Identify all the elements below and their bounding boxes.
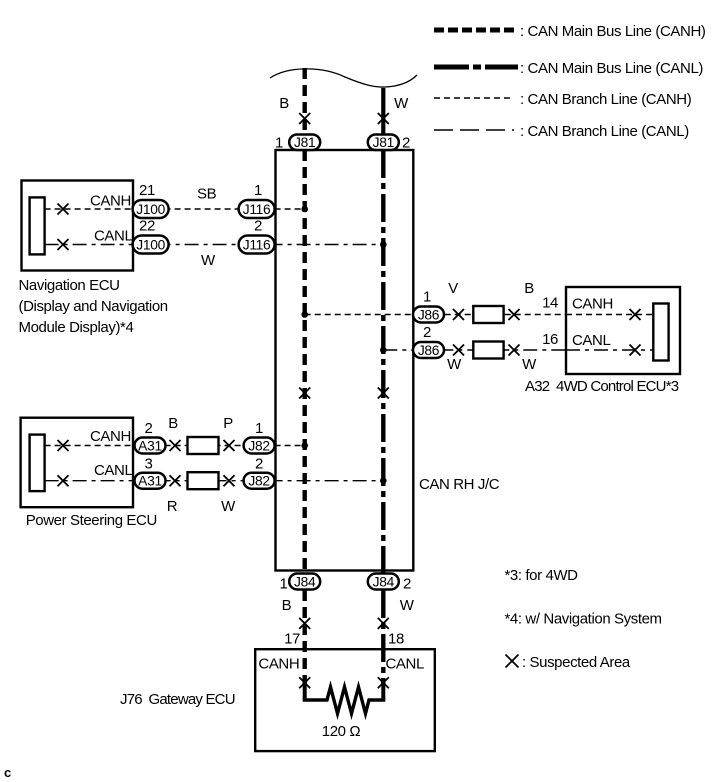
svg-text:CANH: CANH bbox=[90, 193, 131, 210]
node: 4WD CANH taps main bus bbox=[301, 311, 308, 318]
node: Navigation CANL joins main bus bbox=[380, 241, 387, 248]
suspected area X after J86 pin 2 bbox=[453, 345, 464, 356]
wire: CANL main bus below J84 (W) bbox=[383, 590, 414, 684]
svg-text:J116: J116 bbox=[243, 238, 271, 253]
svg-text:*3: for 4WD: *3: for 4WD bbox=[505, 567, 579, 584]
legend: CAN Branch Line (CANH) sample bbox=[434, 91, 692, 108]
svg-text:Power Steering ECU: Power Steering ECU bbox=[26, 512, 157, 529]
svg-text:R: R bbox=[167, 498, 178, 515]
svg-text:18: 18 bbox=[388, 631, 404, 648]
A32 internal connector pin rail bbox=[653, 304, 668, 361]
svg-text:21: 21 bbox=[139, 182, 155, 199]
svg-text:: CAN Branch Line (CANL): : CAN Branch Line (CANL) bbox=[520, 123, 689, 140]
connector J86 pin 2 bbox=[413, 324, 444, 358]
svg-text:CANL: CANL bbox=[94, 228, 132, 245]
svg-text:B: B bbox=[168, 415, 178, 432]
suspected area X on CANH below J84 bbox=[299, 618, 310, 629]
svg-text:1: 1 bbox=[275, 135, 283, 152]
svg-text:A31: A31 bbox=[138, 474, 162, 489]
svg-text:J100: J100 bbox=[136, 238, 165, 253]
wire: 4WD CANL branch (W / W) bbox=[383, 350, 653, 373]
suspected area X on PS CANH at ECU bbox=[58, 440, 69, 451]
connector J82 pin 2 bbox=[244, 456, 275, 489]
connector J81 pin 2 bbox=[368, 135, 410, 152]
wire: Navigation CANL branch (W) bbox=[45, 228, 384, 270]
wire: Power Steering CANH branch (B / P) bbox=[45, 415, 305, 446]
inline connector on 4WD CANH bbox=[473, 306, 503, 323]
svg-text:SB: SB bbox=[197, 186, 217, 203]
suspected area X before J82 pin 1 bbox=[224, 440, 235, 451]
svg-text:J86: J86 bbox=[418, 343, 440, 358]
svg-text:J84: J84 bbox=[373, 575, 395, 590]
A32 4WD Control ECU box bbox=[525, 287, 680, 395]
inline connector on 4WD CANL bbox=[473, 342, 503, 359]
svg-text:2: 2 bbox=[255, 456, 263, 473]
suspected area X on PS CANL at ECU bbox=[58, 475, 69, 486]
suspected area X in A32 CANH bbox=[630, 309, 641, 320]
wire: A32 internal CANH bbox=[566, 296, 653, 315]
suspected area X on CANH above J81 bbox=[299, 113, 310, 124]
suspected area X on CANH inside J/C bbox=[299, 388, 310, 399]
suspected area X on CANL inside gateway bbox=[378, 677, 389, 688]
suspected area X in A32 CANL bbox=[630, 345, 641, 356]
svg-text:W: W bbox=[201, 252, 216, 269]
svg-text:J82: J82 bbox=[248, 474, 269, 489]
suspected area X on Navigation CANH bbox=[58, 204, 69, 215]
svg-text:J100: J100 bbox=[136, 202, 165, 217]
svg-text:14: 14 bbox=[542, 295, 558, 312]
svg-text:1: 1 bbox=[423, 289, 431, 306]
wire: CANL lead into terminating resistor bbox=[381, 684, 385, 700]
note suspected area legend X bbox=[506, 654, 631, 671]
svg-text:W: W bbox=[447, 356, 462, 373]
svg-text:J84: J84 bbox=[294, 575, 316, 590]
wire: A32 internal CANL bbox=[566, 332, 653, 350]
svg-text:1: 1 bbox=[255, 420, 263, 437]
connector J81 pin 1 bbox=[275, 135, 320, 152]
svg-text:CANH: CANH bbox=[258, 656, 299, 673]
connector A31 pin 3 bbox=[135, 456, 166, 489]
connector J100 pin 22 bbox=[133, 218, 169, 254]
svg-text:W: W bbox=[394, 95, 409, 112]
node: PS CANH joins main bus bbox=[301, 442, 308, 449]
svg-text:A31: A31 bbox=[138, 439, 162, 454]
svg-text:2: 2 bbox=[145, 420, 153, 437]
svg-text:120 Ω: 120 Ω bbox=[322, 723, 361, 740]
svg-text:c: c bbox=[4, 765, 11, 780]
suspected area X on CANL above J81 bbox=[378, 113, 389, 124]
svg-text:A32 4WD Control ECU*3: A32 4WD Control ECU*3 bbox=[525, 378, 679, 395]
svg-text:J116: J116 bbox=[243, 202, 271, 217]
svg-text:1: 1 bbox=[254, 182, 262, 199]
connector A31 pin 2 bbox=[135, 420, 166, 454]
legend: CAN Main Bus Line (CANL) sample bbox=[434, 60, 703, 77]
svg-text:V: V bbox=[448, 280, 458, 297]
svg-text:B: B bbox=[524, 280, 534, 297]
svg-text:B: B bbox=[279, 95, 289, 112]
svg-text:1: 1 bbox=[280, 576, 288, 593]
connector J84 pin 2 bbox=[368, 574, 411, 593]
svg-text:P: P bbox=[223, 415, 233, 432]
suspected area X before A32 CANH bbox=[509, 309, 520, 320]
inline connector on PS CANH bbox=[188, 437, 219, 454]
suspected area X after J86 pin 1 bbox=[453, 309, 464, 320]
Power Steering ECU box bbox=[21, 418, 157, 529]
Navigation ECU box bbox=[19, 181, 168, 337]
svg-text:(Display and Navigation: (Display and Navigation bbox=[19, 298, 168, 315]
wire: CANL main bus above J81 (W) bbox=[383, 88, 409, 134]
wire: Navigation CANH branch (SB) bbox=[45, 186, 305, 210]
svg-text:Navigation ECU: Navigation ECU bbox=[19, 277, 120, 294]
wire: Power Steering CANL branch (R / W) bbox=[45, 462, 384, 515]
svg-text:: Suspected Area: : Suspected Area bbox=[522, 654, 631, 671]
wire: harness break wavy line bbox=[270, 69, 417, 87]
svg-text:: CAN Branch Line (CANH): : CAN Branch Line (CANH) bbox=[520, 91, 692, 108]
wire: CANH main bus below J84 (B) bbox=[282, 590, 305, 684]
suspected area X before J82 pin 2 bbox=[224, 475, 235, 486]
svg-text:CANH: CANH bbox=[90, 428, 131, 445]
connector J116 pin 1 bbox=[239, 182, 275, 218]
svg-text:: CAN Main Bus Line (CANL): : CAN Main Bus Line (CANL) bbox=[520, 60, 703, 77]
connector J82 pin 1 bbox=[244, 420, 275, 454]
node: PS CANL joins main bus bbox=[380, 477, 387, 484]
connector J84 pin 1 bbox=[280, 574, 321, 593]
svg-text:CANL: CANL bbox=[386, 656, 424, 673]
svg-text:22: 22 bbox=[139, 218, 155, 235]
svg-text:*4: w/ Navigation System: *4: w/ Navigation System bbox=[505, 611, 662, 628]
svg-text:CANH: CANH bbox=[572, 296, 613, 313]
svg-text:2: 2 bbox=[402, 135, 410, 152]
legend: CAN Branch Line (CANL) sample bbox=[434, 123, 689, 140]
svg-text:3: 3 bbox=[145, 456, 153, 473]
wire: 4WD CANH branch (V / B) bbox=[305, 280, 654, 315]
wire: CANH lead into terminating resistor bbox=[303, 684, 307, 700]
svg-text:CANL: CANL bbox=[572, 332, 610, 349]
node: 4WD CANL taps main bus bbox=[380, 347, 387, 354]
svg-text:J82: J82 bbox=[248, 439, 269, 454]
J76 Gateway ECU box bbox=[120, 649, 435, 751]
suspected area X after A31 pin 2 bbox=[170, 440, 181, 451]
svg-text:J76 Gateway ECU: J76 Gateway ECU bbox=[120, 691, 235, 708]
connector J86 pin 1 bbox=[413, 289, 444, 323]
CAN RH J/C junction box bbox=[276, 150, 500, 571]
node: Navigation CANH joins main bus bbox=[301, 206, 308, 213]
suspected area X before A32 CANL bbox=[509, 345, 520, 356]
svg-text:2: 2 bbox=[403, 576, 411, 593]
suspected area X on CANL inside J/C bbox=[378, 388, 389, 399]
svg-text:W: W bbox=[221, 498, 236, 515]
wire: CANL main bus inside J/C bbox=[381, 150, 385, 574]
svg-text:Module Display)*4: Module Display)*4 bbox=[19, 319, 134, 336]
svg-text:: CAN Main Bus Line (CANH): : CAN Main Bus Line (CANH) bbox=[520, 23, 706, 40]
svg-text:W: W bbox=[400, 597, 415, 614]
svg-text:CANL: CANL bbox=[94, 462, 132, 479]
suspected area X on CANH inside gateway bbox=[299, 677, 310, 688]
svg-text:2: 2 bbox=[254, 218, 262, 235]
wire: CANH main bus above J81 (B) bbox=[279, 68, 305, 134]
svg-text:CAN RH J/C: CAN RH J/C bbox=[419, 476, 500, 493]
inline connector on PS CANL bbox=[188, 472, 219, 489]
suspected area X on Navigation CANL bbox=[58, 239, 69, 250]
legend: CAN Main Bus Line (CANH) sample bbox=[434, 23, 706, 40]
svg-text:J81: J81 bbox=[294, 135, 315, 150]
svg-text:W: W bbox=[522, 356, 537, 373]
svg-text:17: 17 bbox=[284, 631, 300, 648]
suspected area X on CANL below J84 bbox=[378, 618, 389, 629]
svg-text:J81: J81 bbox=[373, 135, 394, 150]
resistor 120 ohm terminating bbox=[303, 687, 386, 740]
suspected area X after A31 pin 3 bbox=[170, 475, 181, 486]
svg-text:16: 16 bbox=[542, 331, 558, 348]
wire: CANH main bus inside J/C bbox=[303, 150, 307, 574]
svg-text:J86: J86 bbox=[418, 308, 440, 323]
connector J100 pin 21 bbox=[133, 182, 169, 218]
connector J116 pin 2 bbox=[239, 218, 275, 254]
svg-text:B: B bbox=[282, 597, 292, 614]
svg-text:2: 2 bbox=[423, 324, 431, 341]
